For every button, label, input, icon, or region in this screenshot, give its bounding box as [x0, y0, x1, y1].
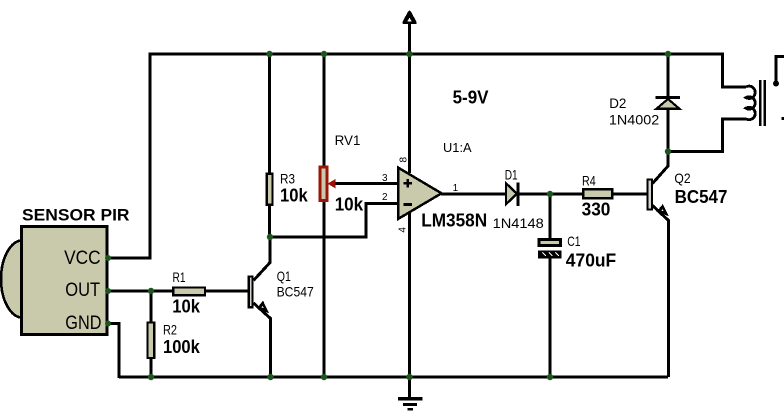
wire RV1 bottom to ground rail	[323, 201, 326, 378]
wire sensor OUT to R1	[107, 290, 173, 293]
diode D2 triangle	[657, 99, 680, 109]
potentiometer RV1 wiper arrow	[329, 180, 336, 188]
transistor Q1 base bar	[249, 276, 253, 307]
wire Q2 collector node to relay coil bottom	[668, 119, 746, 152]
wire relay coil top lead	[723, 54, 746, 87]
svg-text:10k: 10k	[280, 185, 309, 205]
junction dot D1/C1	[547, 191, 553, 197]
svg-text:8: 8	[399, 157, 410, 163]
svg-text:C1: C1	[567, 233, 580, 249]
svg-text:RV1: RV1	[335, 132, 361, 148]
relay core line 2	[763, 80, 766, 126]
svg-text:Q1: Q1	[277, 268, 291, 284]
svg-text:R2: R2	[163, 322, 177, 338]
svg-text:D2: D2	[609, 95, 626, 111]
resistor R2 body	[148, 323, 155, 359]
wire C1 bottom to ground rail	[549, 258, 552, 377]
wire RV1 wiper to op-amp pin 3	[334, 182, 398, 185]
svg-text:2: 2	[382, 192, 388, 203]
transistor Q1 collector	[254, 237, 271, 281]
svg-text:R3: R3	[280, 170, 295, 186]
svg-text:SENSOR PIR: SENSOR PIR	[22, 206, 130, 225]
wire bottom ground rail	[119, 376, 668, 379]
wire op-amp minus feedback to Q1 collector node	[270, 204, 398, 238]
capacitor C1 plate hatch	[543, 253, 560, 257]
wire R3 drop from rail	[268, 54, 271, 174]
diode D2 cathode bar	[656, 96, 681, 99]
junction dot rail ground	[406, 374, 412, 380]
svg-text:3: 3	[382, 173, 388, 184]
junction dot top rail at power	[406, 51, 412, 57]
relay contact wire	[776, 57, 784, 84]
svg-text:1N4148: 1N4148	[493, 215, 544, 231]
resistor R3 body	[267, 174, 273, 205]
svg-text:470uF: 470uF	[566, 250, 616, 270]
transistor Q1 emitter	[254, 303, 271, 377]
wire RV1 drop from rail	[323, 54, 326, 167]
junction dot rail C1	[547, 374, 553, 380]
wire R1 to Q1 base	[205, 290, 248, 293]
resistor R1 body	[173, 288, 205, 296]
capacitor C1 top plate	[539, 240, 561, 246]
capacitor C1 bottom plate	[538, 250, 562, 258]
svg-text:R4: R4	[582, 173, 596, 189]
sensor PIR body	[22, 227, 108, 335]
op-amp U1 body	[398, 168, 442, 220]
junction dot rail Q1 emitter	[267, 374, 273, 380]
pin dot OUT	[105, 288, 111, 294]
svg-text:100k: 100k	[163, 337, 201, 357]
junction dot R3/Q1 collector	[267, 234, 273, 240]
junction dot rail R2	[148, 374, 154, 380]
resistor R4 body	[583, 189, 612, 198]
junction dot OUT/R2	[148, 288, 154, 294]
svg-text:U1:A: U1:A	[443, 140, 472, 155]
transistor Q2 base bar	[648, 180, 653, 210]
transistor Q1 emitter arrow	[257, 301, 269, 314]
op-amp minus input symbol	[403, 203, 412, 206]
svg-text:BC547: BC547	[277, 284, 314, 300]
svg-text:LM358N: LM358N	[421, 211, 487, 231]
junction dot rail D2	[665, 51, 671, 57]
svg-text:5-9V: 5-9V	[453, 88, 489, 108]
diode D1 cathode bar	[516, 182, 519, 206]
wire op-amp pin 8 supply	[408, 54, 411, 173]
wire R4 to Q2 base	[612, 193, 647, 196]
relay core line 1	[759, 80, 762, 126]
svg-text:R1: R1	[173, 269, 186, 285]
wire op-amp output to D1	[441, 193, 506, 196]
svg-text:VCC: VCC	[64, 247, 101, 269]
svg-text:4: 4	[398, 227, 409, 233]
wire VCC to top-left vertical	[107, 54, 150, 258]
svg-text:10k: 10k	[172, 296, 201, 316]
wire node to C1 top	[549, 194, 552, 239]
potentiometer RV1 body	[320, 167, 327, 201]
wire D2 top from rail	[667, 54, 670, 97]
diode D1 triangle	[506, 183, 517, 204]
sensor PIR dome	[1, 240, 45, 318]
wire sensor GND to rail	[107, 324, 119, 379]
power flag arrow 5-9V	[404, 12, 415, 22]
junction dot rail RV1	[321, 51, 327, 57]
op-amp plus input symbol	[403, 179, 412, 187]
svg-text:330: 330	[582, 200, 611, 220]
relay contact pivot dot	[773, 81, 779, 87]
svg-text:OUT: OUT	[65, 279, 100, 301]
transistor Q2 collector	[653, 152, 669, 184]
svg-text:1: 1	[453, 183, 459, 194]
svg-text:1N4002: 1N4002	[609, 112, 660, 128]
wire D1 to R4	[519, 193, 583, 196]
svg-text:Q2: Q2	[674, 170, 690, 186]
wire op-amp pin 4 to ground rail	[408, 213, 411, 377]
svg-text:BC547: BC547	[675, 187, 728, 207]
svg-text:D1: D1	[505, 166, 518, 182]
wire top power rail	[149, 53, 725, 56]
ground symbol	[398, 377, 422, 409]
junction dot D2/Q2 collector	[665, 148, 671, 154]
junction dot rail R3	[266, 51, 272, 57]
svg-text:10k: 10k	[335, 194, 364, 214]
junction dot rail RV1 bottom	[321, 374, 327, 380]
svg-text:GND: GND	[65, 312, 101, 334]
transistor Q2 emitter	[653, 206, 669, 378]
relay coil	[746, 86, 755, 120]
wire power arrow stem	[408, 21, 411, 54]
wire R2 bottom	[150, 358, 153, 377]
wire D2 bottom to Q2 collector node	[667, 108, 670, 152]
wire R2 top	[150, 291, 153, 323]
pin dot GND	[105, 321, 111, 327]
wire R3 bottom to node	[268, 204, 271, 238]
relay contact stub	[782, 117, 784, 120]
pin dot VCC	[105, 255, 111, 261]
transistor Q2 emitter arrow	[656, 204, 669, 216]
